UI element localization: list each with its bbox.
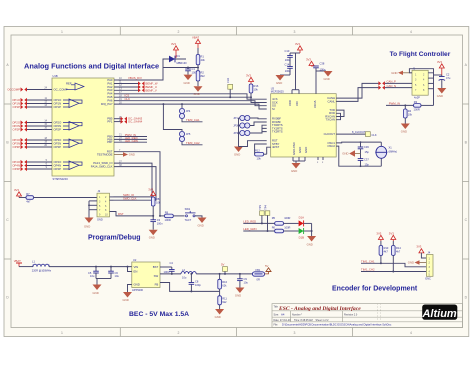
svg-text:3V3: 3V3 [437, 60, 442, 64]
svg-text:3V3: 3V3 [389, 231, 394, 235]
op-amp OP4 inside U1B [63, 161, 82, 170]
wire PA14_SWD_CLK [114, 167, 157, 201]
capacitor C10 100n [285, 49, 293, 64]
svg-text:SW1: SW1 [185, 207, 191, 211]
wire R12 to nRST [267, 147, 271, 154]
wire U2 GND pin [128, 285, 132, 293]
svg-text:LED_GRN: LED_GRN [125, 139, 138, 143]
svg-text:3V3: 3V3 [416, 245, 421, 249]
wire caps bottom rail [96, 278, 111, 280]
svg-text:R14: R14 [396, 246, 401, 250]
svg-text:C8: C8 [195, 279, 199, 283]
capacitor C37 15p [358, 154, 370, 167]
svg-text:R6: R6 [272, 225, 276, 229]
svg-text:TESTMODE: TESTMODE [97, 152, 113, 156]
svg-text:JP3: JP3 [233, 131, 238, 135]
svg-text:OP3P: OP3P [54, 145, 62, 149]
wire net PWM_IN to J1 [386, 104, 414, 106]
port OP2N [12, 124, 27, 128]
svg-text:R3: R3 [414, 100, 418, 104]
svg-text:GND: GND [129, 153, 135, 157]
resistor R9 100R [160, 210, 185, 222]
svg-text:TACT: TACT [185, 218, 192, 222]
svg-text:GND: GND [401, 130, 407, 134]
ground C9 [235, 288, 245, 298]
svg-text:OC_COMP: OC_COMP [54, 87, 68, 91]
junction C8 bottom [190, 290, 192, 292]
resistor R4 10k [404, 105, 413, 123]
wire JP3 to TX0RTS [250, 125, 267, 133]
TXD/RXD loopback wires [336, 110, 344, 120]
svg-text:3V3: 3V3 [295, 42, 300, 46]
wire net LED_RED [243, 222, 274, 224]
svg-text:GND: GND [342, 152, 348, 156]
svg-text:100n: 100n [157, 222, 163, 226]
svg-text:2: 2 [178, 331, 180, 335]
svg-text:D:\Documents\HDD\PCB Documenta: D:\Documents\HDD\PCB Documentation\BLDC … [282, 323, 392, 327]
capacitor C8 100p [189, 274, 202, 292]
port OP4O [12, 160, 27, 164]
junction R14/TIM1_CH2 [392, 271, 394, 273]
power port 3V3 (J4 pin1) [416, 245, 426, 258]
wire VBUS_DIV to divider [163, 67, 198, 69]
svg-text:10u: 10u [182, 276, 187, 280]
power port 3V3 (R14) [389, 231, 396, 241]
svg-text:File:: File: [274, 324, 279, 327]
resistor R11 9k2 [218, 291, 228, 309]
svg-text:1: 1 [61, 30, 63, 34]
ground U3 [291, 163, 301, 173]
svg-text:GND: GND [84, 225, 90, 229]
svg-text:4k7: 4k7 [396, 250, 401, 254]
svg-text:5V: 5V [265, 264, 269, 268]
junction R13/TIM1_CH1 [380, 262, 382, 264]
wire JP2 to RX1BF [250, 122, 267, 126]
junction TP3 [261, 222, 263, 224]
wire TX1RTS/TX2RTS tie [262, 128, 267, 131]
wire PA7 to U3 SI [114, 104, 267, 109]
svg-text:47u: 47u [446, 76, 451, 80]
svg-text:R13: R13 [384, 246, 389, 250]
junction on PA7 wire at jumper JP5 [162, 103, 164, 105]
svg-text:C36: C36 [364, 145, 369, 149]
svg-text:V1OA: V1OA [313, 100, 317, 108]
svg-text:TX2RTS: TX2RTS [272, 130, 283, 134]
svg-text:100n: 100n [164, 270, 170, 274]
jumper JP1 [240, 115, 250, 120]
wire OP4P [27, 168, 52, 170]
svg-text:GND: GND [437, 94, 443, 98]
svg-text:VIO: VIO [295, 100, 299, 106]
svg-text:TXCAN: TXCAN [326, 118, 335, 122]
svg-text:C3: C3 [157, 218, 161, 222]
junction C6 [110, 266, 112, 268]
svg-text:R9: R9 [165, 210, 169, 214]
svg-text:OP2P: OP2P [13, 127, 21, 131]
wire JP5 feed [163, 104, 182, 131]
svg-text:GND: GND [291, 169, 297, 173]
wire BST to C4 [160, 266, 172, 268]
connector J4 ENC [425, 251, 433, 281]
power port 3V3 (U3 VDD) [295, 42, 303, 53]
svg-text:10k: 10k [408, 112, 413, 116]
wire EN tie to VIN [128, 267, 132, 272]
svg-text:3V3: 3V3 [148, 187, 153, 191]
svg-text:R2: R2 [201, 71, 205, 75]
wire OP3O [27, 139, 52, 141]
jumper JP3 [240, 130, 250, 135]
svg-text:10u: 10u [244, 281, 249, 285]
svg-text:GND: GND [184, 81, 190, 85]
wire OP1P [27, 106, 52, 108]
power port 3V3 (above D1) [171, 42, 179, 58]
wire J1 pin2 ground loop [409, 69, 433, 73]
wire RST from U1B [114, 152, 160, 216]
resistor R8 10k [151, 197, 160, 216]
wire CAN_P to J1 [385, 82, 412, 84]
svg-text:R5: R5 [272, 216, 276, 220]
svg-text:TIM3_CH2: TIM3_CH2 [186, 141, 200, 145]
ground jumper rail [234, 147, 243, 157]
svg-text:GND: GND [134, 282, 140, 286]
svg-text:100R: 100R [284, 225, 290, 229]
junction C4/SW [171, 273, 173, 275]
wire net ICS (PA4 to U3 nCS) [114, 94, 267, 99]
wire CAN_N to J1 [385, 87, 412, 89]
ground LEDs [307, 236, 317, 247]
ground crystal caps (left-pointing) [342, 150, 360, 156]
power port 3V3 (V1OA) [306, 57, 316, 66]
svg-text:FB: FB [155, 282, 159, 286]
capacitor C14 100n [285, 62, 293, 75]
svg-text:GND: GND [324, 77, 330, 81]
svg-text:CLKOUT: CLKOUT [324, 132, 336, 136]
capacitor C4 100n (bootstrap) [164, 261, 175, 274]
svg-text:10k: 10k [254, 88, 259, 92]
junction TP 5V [224, 273, 226, 275]
capacitor C1 100n [187, 67, 189, 69]
wire J2 left ground pins [89, 201, 97, 218]
op-amp OP2 inside U1B [63, 122, 82, 131]
ground at TESTMODE pin [114, 152, 135, 156]
wire SW1 to ground [195, 216, 202, 218]
svg-text:10u: 10u [90, 274, 95, 278]
svg-text:C2: C2 [446, 73, 450, 77]
svg-text:OCCOMP: OCCOMP [7, 87, 20, 91]
svg-text:R11: R11 [222, 296, 227, 300]
svg-text:GND: GND [235, 294, 241, 298]
Altium logo [421, 305, 457, 321]
U3 pin names [272, 97, 283, 149]
svg-text:LED_GRN: LED_GRN [243, 227, 256, 231]
svg-text:Date: 27-Oct-20: Date: 27-Oct-20 [274, 319, 292, 322]
svg-text:3V3: 3V3 [376, 231, 381, 235]
svg-text:TIM1_CH2: TIM1_CH2 [361, 268, 375, 272]
connector J1 4x2P [412, 66, 428, 99]
wire net TIM1_CH2 [361, 271, 426, 273]
wire U3 GND pins [293, 157, 305, 163]
wire OP4N [27, 165, 52, 167]
svg-text:R12: R12 [255, 148, 260, 152]
junction C9 top [239, 273, 241, 275]
svg-text:GND: GND [234, 153, 240, 157]
wire PB7 net LED_GRN [114, 141, 147, 143]
svg-text:(8MHz): (8MHz) [389, 150, 398, 154]
resistor R5 100R [272, 216, 291, 225]
jumper JP4 [179, 108, 184, 118]
svg-text:100p: 100p [195, 283, 201, 287]
svg-text:GND: GND [93, 291, 99, 295]
svg-text:JP1: JP1 [233, 116, 238, 120]
wire R6 to D1B [284, 230, 299, 232]
junction PWM/R4 [404, 104, 406, 106]
wire jumper left rail to ground [239, 118, 240, 147]
wire J2 pin10 RST row [110, 212, 154, 216]
svg-text:CANL: CANL [328, 99, 336, 103]
wire OCCOMP to U1B [27, 89, 52, 91]
port OP4P [13, 167, 27, 171]
wire J2 pin4 SWD_CLK [110, 199, 114, 201]
svg-text:OC_GAIN4: OC_GAIN4 [128, 120, 143, 124]
svg-text:To Flight Controller: To Flight Controller [390, 51, 451, 58]
wire PA1 [114, 83, 138, 85]
svg-text:GND: GND [307, 243, 313, 247]
port OP3N [12, 141, 27, 145]
svg-text:D1: D1 [177, 54, 181, 58]
power port VBAT (BEC input) [14, 259, 22, 267]
svg-text:R4: R4 [408, 109, 412, 113]
port OP3O [12, 138, 27, 142]
svg-text:3V3: 3V3 [14, 188, 19, 192]
wire JP1 to RX0BF [250, 117, 267, 120]
svg-text:GND: GND [198, 224, 204, 228]
wire PA6 to U3 SO [114, 101, 267, 106]
svg-text:GND: GND [194, 92, 200, 96]
wire CLKOUT to test point [336, 133, 365, 135]
svg-text:220R @100MHz: 220R @100MHz [32, 269, 52, 273]
wire OP3N [27, 143, 52, 145]
svg-text:Program/Debug: Program/Debug [88, 235, 141, 242]
op-amp REF inside U1B [66, 83, 84, 90]
junction C37 bottom [360, 165, 362, 167]
junction LED gnd [311, 230, 313, 232]
ground below R4 [401, 124, 410, 134]
wire OP2N [27, 125, 52, 127]
wire BEC input rail [49, 266, 132, 268]
svg-text:U1B: U1B [53, 74, 58, 78]
svg-text:OSC2: OSC2 [327, 144, 335, 148]
svg-text:BEC - 5V Max 1.5A: BEC - 5V Max 1.5A [129, 311, 189, 318]
svg-text:GND-PAD: GND-PAD [292, 142, 296, 155]
svg-text:BST: BST [153, 265, 159, 269]
wire OP4O [27, 161, 52, 163]
wire OSC2 rail [336, 146, 381, 166]
ground below C14 [276, 75, 291, 85]
svg-text:GND: GND [391, 71, 397, 75]
port OP2O [12, 120, 27, 124]
junction C5 [95, 266, 97, 268]
resistor R6 100R [272, 225, 291, 232]
test point CLK (yellow pad) [226, 78, 233, 99]
junction J2 gnd rail [88, 204, 90, 206]
svg-text:3V3: 3V3 [171, 42, 176, 46]
diode D1 MBR130 [163, 54, 187, 65]
svg-text:FB1: FB1 [256, 268, 261, 272]
svg-text:4k7: 4k7 [384, 250, 389, 254]
svg-text:8k2: 8k2 [201, 74, 206, 78]
U3 NC pins [318, 157, 323, 160]
svg-text:100R: 100R [414, 108, 420, 112]
capacitor C9 10u [237, 274, 248, 288]
svg-text:C9: C9 [244, 277, 248, 281]
wire net CLK (PA5 to U3 SCK) [114, 97, 267, 102]
wire JP4 feed [181, 104, 183, 108]
svg-text:Altium: Altium [421, 308, 456, 320]
wire CANL from U3 to CAN_N [336, 88, 378, 102]
IC U3 body [271, 86, 337, 157]
svg-text:Size:: Size: [274, 314, 280, 317]
LED D1B green [299, 228, 305, 240]
capacitor C5 10u [88, 267, 99, 279]
test point CLK (TP1) [366, 132, 377, 137]
svg-text:GND: GND [408, 261, 414, 265]
svg-text:OP3P: OP3P [13, 145, 21, 149]
ground R11 [215, 309, 225, 319]
power port 3V3 (R8) [148, 187, 156, 197]
resistor R14 4k7 [392, 241, 402, 272]
junction jumper rail [238, 125, 240, 127]
wire JP5 bottom [182, 142, 203, 145]
wire OP2P [27, 129, 52, 131]
svg-text:D1B: D1B [299, 236, 305, 240]
svg-text:OP1P: OP1P [54, 105, 62, 109]
resistor R16 10k pull-up [249, 84, 259, 98]
capacitor C6 10u [108, 267, 119, 279]
svg-text:5V: 5V [221, 262, 225, 266]
wire PB5 [114, 118, 121, 120]
port BEMF_W [138, 81, 158, 85]
svg-text:8_CLKOUT: 8_CLKOUT [352, 130, 366, 134]
svg-text:C37: C37 [364, 158, 369, 162]
svg-text:STSPIN32F0: STSPIN32F0 [53, 177, 69, 181]
svg-text:C10: C10 [285, 49, 290, 53]
inductor L1 220R@100MHz [19, 259, 52, 272]
svg-text:REF: REF [66, 81, 72, 85]
svg-text:nRST: nRST [272, 145, 279, 149]
ground J2 [84, 218, 94, 229]
ground BEC input caps [93, 279, 102, 296]
port CAN_N [378, 84, 396, 90]
svg-text:A4: A4 [281, 313, 285, 317]
op-amp OP1 inside U1B [63, 99, 82, 108]
svg-text:SWD_CLK: SWD_CLK [123, 197, 137, 201]
svg-text:ENC: ENC [425, 277, 431, 281]
capacitor C2 47u [439, 73, 451, 89]
svg-text:100R: 100R [165, 218, 171, 222]
port OC_GAIN3 [121, 117, 143, 121]
svg-text:CLK: CLK [226, 78, 230, 83]
svg-text:ESC - Analog and Digital Inter: ESC - Analog and Digital Interface [278, 306, 361, 312]
port OC_GAIN4 [121, 120, 143, 124]
resistor R13 4k7 [379, 241, 389, 263]
svg-text:JP2: JP2 [233, 124, 238, 128]
svg-text:MBR130: MBR130 [177, 61, 188, 65]
junction R1/R2 VBUS_DIV [197, 67, 199, 69]
U1B right pin names [91, 78, 114, 169]
svg-text:VDD: VDD [288, 100, 292, 106]
wire OP3P [27, 146, 52, 148]
ground at J4 pin2 (left-pointing) [408, 260, 427, 264]
connector J2 SWD header [97, 189, 110, 221]
svg-text:GND: GND [298, 147, 302, 153]
svg-text:LED_RED: LED_RED [243, 219, 256, 223]
wire SW output [160, 273, 181, 275]
port OP2P [13, 127, 27, 131]
svg-text:C38: C38 [320, 62, 325, 66]
junction R10 top [219, 273, 221, 275]
wire net VBUS_DIV (PA0) [118, 59, 166, 80]
wire J2 pin2 SWD_IO [110, 196, 114, 198]
power port 3V3 (C2) [437, 60, 444, 75]
resistor R10 62k [218, 274, 228, 292]
svg-text:15p: 15p [365, 163, 370, 167]
svg-text:Revision 2.0: Revision 2.0 [344, 314, 358, 317]
ground at J1 pin1 (left-pointing) [391, 71, 412, 75]
svg-text:GND: GND [276, 81, 282, 85]
resistor R2 8k2 [196, 68, 205, 87]
svg-text:JP5: JP5 [186, 132, 191, 136]
svg-text:3: 3 [294, 331, 296, 335]
capacitor C3 100n [150, 216, 163, 230]
svg-text:OP1P: OP1P [13, 105, 21, 109]
ground SW1 [198, 218, 207, 228]
power port VBAT (above R1) [192, 35, 201, 48]
svg-text:15p: 15p [365, 150, 370, 154]
wire PB0 net PWM_IN [114, 136, 147, 138]
U1B pin number labels [44, 77, 122, 169]
svg-text:GND: GND [97, 217, 103, 221]
wire R7 to J2 pin1 [34, 197, 98, 199]
junction C8 top [190, 273, 192, 275]
capacitor C38 100n [313, 62, 326, 72]
port OP1N [12, 101, 27, 105]
wire PA3 [114, 89, 138, 91]
power port 5V (brown) [265, 264, 271, 274]
svg-text:0R: 0R [257, 277, 260, 281]
port BEMF_U [138, 85, 157, 89]
power port 3V3 (R13) [376, 231, 383, 241]
svg-text:PB7: PB7 [107, 140, 113, 144]
svg-text:RST: RST [118, 212, 124, 216]
ground below C3 [149, 230, 158, 240]
wire PB6 net LED_RED [114, 138, 147, 140]
wire OP1N [27, 103, 52, 105]
wire OSC1 rail [336, 141, 381, 144]
svg-text:R10: R10 [222, 280, 227, 284]
svg-text:3V3: 3V3 [306, 57, 311, 61]
svg-text:OP4P: OP4P [54, 167, 62, 171]
svg-text:Encoder for Development: Encoder for Development [332, 286, 418, 293]
junction EN/VIN [127, 266, 129, 268]
svg-text:100R: 100R [284, 216, 290, 220]
svg-text:D1A: D1A [299, 215, 305, 219]
svg-text:JP4: JP4 [186, 109, 191, 113]
wire PA2 [114, 86, 138, 88]
wire PA13_SWD_IO [114, 163, 153, 197]
svg-text:R16: R16 [254, 84, 259, 88]
op-amp U1B body [52, 74, 114, 181]
svg-text:Analog Functions and Digital I: Analog Functions and Digital Interface [24, 62, 159, 71]
